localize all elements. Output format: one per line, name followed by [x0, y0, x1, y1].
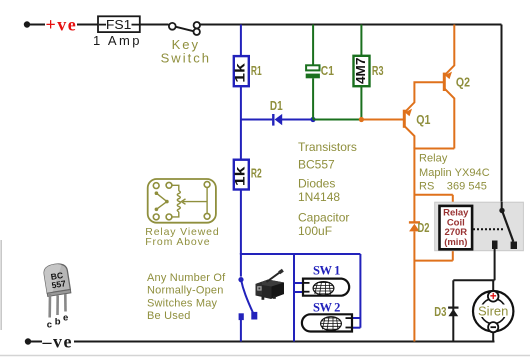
svg-text:e: e	[63, 313, 68, 324]
svg-text:R1: R1	[251, 63, 262, 78]
svg-text:SW 2: SW 2	[313, 300, 340, 314]
svg-text:–ve: –ve	[42, 331, 74, 351]
svg-text:From Above: From Above	[145, 236, 210, 248]
svg-text:R3: R3	[372, 63, 384, 78]
svg-text:100uF: 100uF	[298, 224, 332, 238]
svg-text:Capacitor: Capacitor	[298, 210, 349, 224]
svg-text:Diodes: Diodes	[298, 176, 335, 190]
svg-text:Normally-Open: Normally-Open	[147, 285, 224, 297]
svg-text:1N4148: 1N4148	[298, 190, 340, 204]
svg-text:Siren: Siren	[478, 304, 508, 319]
svg-text:BC557: BC557	[298, 158, 335, 172]
svg-text:R2: R2	[251, 165, 262, 180]
svg-text:Be Used: Be Used	[147, 310, 191, 322]
svg-text:(min): (min)	[444, 237, 467, 248]
svg-text:Q1: Q1	[416, 112, 430, 127]
svg-text:Any Number Of: Any Number Of	[147, 272, 226, 284]
svg-text:1k: 1k	[232, 63, 248, 83]
svg-text:Q2: Q2	[456, 75, 470, 90]
svg-text:1k: 1k	[232, 166, 248, 186]
svg-text:RS 369 545: RS 369 545	[419, 180, 487, 192]
svg-text:Maplin YX94C: Maplin YX94C	[419, 167, 490, 179]
svg-text:SW 1: SW 1	[313, 264, 340, 278]
svg-text:Transistors: Transistors	[298, 140, 357, 154]
svg-text:+: +	[490, 291, 497, 303]
svg-text:C1: C1	[321, 63, 334, 78]
svg-text:4M7: 4M7	[353, 58, 368, 85]
svg-text:D1: D1	[270, 98, 283, 113]
svg-text:1 Amp: 1 Amp	[93, 33, 142, 48]
svg-text:Relay: Relay	[419, 152, 448, 164]
svg-text:FS1: FS1	[106, 17, 131, 32]
svg-text:Switch: Switch	[161, 51, 211, 66]
svg-text:D2: D2	[418, 220, 430, 235]
svg-text:D3: D3	[434, 304, 446, 319]
svg-text:c: c	[47, 320, 52, 331]
svg-text:+ve: +ve	[46, 15, 78, 35]
svg-text:b: b	[55, 317, 61, 328]
svg-text:Switches May: Switches May	[147, 297, 218, 309]
